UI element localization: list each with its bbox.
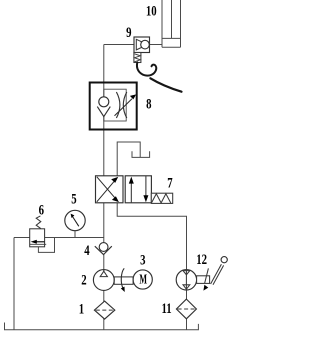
svg-text:5: 5 <box>71 190 77 207</box>
svg-text:11: 11 <box>162 299 172 316</box>
svg-text:1: 1 <box>79 300 84 317</box>
svg-text:M: M <box>139 273 147 288</box>
svg-text:3: 3 <box>140 251 146 268</box>
svg-text:9: 9 <box>126 23 132 40</box>
svg-text:4: 4 <box>84 241 90 258</box>
svg-text:10: 10 <box>146 2 157 19</box>
svg-text:2: 2 <box>81 271 86 288</box>
svg-text:6: 6 <box>39 201 45 218</box>
svg-text:7: 7 <box>167 174 173 191</box>
svg-text:12: 12 <box>196 250 207 267</box>
svg-text:8: 8 <box>146 95 152 112</box>
